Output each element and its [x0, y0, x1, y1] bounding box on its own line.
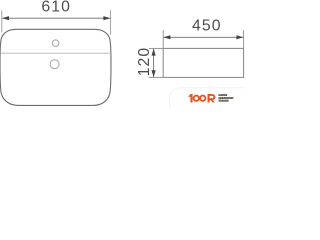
basin top view outline	[0, 29, 111, 105]
watermark logo 100R	[188, 94, 193, 103]
dimension 450: extension line left	[162, 30, 164, 48]
dimension 450: left arrowhead	[163, 35, 170, 39]
svg-text:450: 450	[192, 18, 222, 35]
svg-text:ТЕХНИКИ: ТЕХНИКИ	[219, 100, 229, 103]
dimension 120: extension line top	[149, 47, 163, 49]
dimension 450: right arrowhead	[236, 35, 243, 39]
side view rectangle	[163, 48, 243, 77]
dimension 610: extension line right	[110, 10, 112, 35]
dimension 120: dimension line	[153, 49, 155, 77]
watermark pill background	[170, 88, 262, 116]
dimension 120: extension line bottom	[149, 76, 163, 78]
dimension 120: bottom arrowhead	[152, 70, 156, 77]
svg-text:610: 610	[41, 0, 71, 16]
dimension 120: top arrowhead	[152, 49, 156, 56]
dimension 610: dimension line	[2, 17, 110, 19]
faucet hole	[52, 40, 59, 47]
watermark tagline line 1	[218, 94, 227, 96]
dimension 450: dimension line	[164, 36, 244, 38]
watermark tagline text overlay	[219, 94, 234, 103]
watermark tagline line 3	[218, 100, 228, 102]
dimension 610: left arrowhead	[2, 16, 9, 20]
watermark tagline line 2	[218, 97, 233, 99]
dimension 450: extension line right	[243, 30, 245, 48]
basin rim line	[0, 52, 111, 54]
svg-text:ОНЛАЙН: ОНЛАЙН	[219, 94, 228, 97]
drain hole	[50, 60, 59, 69]
dimension 610: right arrowhead	[103, 16, 110, 20]
svg-text:120: 120	[136, 47, 153, 77]
dimension 610: extension line left	[1, 10, 3, 32]
svg-text:ГИПЕРМАРКЕТ: ГИПЕРМАРКЕТ	[219, 97, 234, 100]
